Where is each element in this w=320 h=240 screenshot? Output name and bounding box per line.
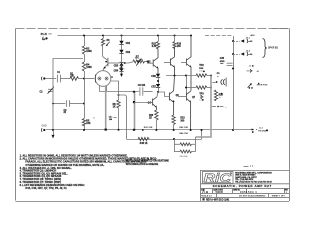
- svg-text:P4 GND: P4 GND: [258, 130, 267, 133]
- svg-text:TP2: TP2: [199, 64, 204, 67]
- svg-text:R23: R23: [180, 118, 185, 120]
- svg-text:R40 1K: R40 1K: [140, 142, 148, 145]
- svg-text:C30: C30: [220, 58, 225, 60]
- svg-text:CR2: CR2: [126, 52, 131, 54]
- svg-text:R41 15K: R41 15K: [144, 126, 153, 129]
- svg-text:R42 15K: R42 15K: [179, 126, 188, 129]
- svg-text:REV A 4/97 ECO 1141: REV A 4/97 ECO 1141: [206, 198, 230, 201]
- svg-text:1K: 1K: [113, 106, 116, 108]
- svg-text:1K: 1K: [149, 117, 152, 119]
- svg-text:CR3: CR3: [114, 65, 119, 67]
- svg-text:10K: 10K: [86, 123, 91, 125]
- svg-text:SPKR 8Ω: SPKR 8Ω: [268, 48, 278, 50]
- svg-text:J2-1: J2-1: [246, 37, 251, 39]
- svg-text:C6 104: C6 104: [138, 84, 146, 87]
- svg-text:J2-2: J2-2: [246, 50, 251, 52]
- svg-text:4.7K: 4.7K: [152, 45, 157, 48]
- svg-text:+40V: +40V: [250, 34, 256, 37]
- svg-text:P1 J1: P1 J1: [41, 34, 48, 36]
- svg-text:104: 104: [109, 119, 112, 121]
- svg-text:TP3: TP3: [199, 93, 204, 95]
- svg-text:22: 22: [93, 118, 95, 120]
- svg-text:100K: 100K: [86, 67, 92, 69]
- svg-text:1M: 1M: [70, 76, 73, 78]
- svg-text:CR1: CR1: [126, 43, 131, 45]
- svg-text:CR6: CR6: [151, 76, 156, 78]
- svg-text:CR4: CR4: [114, 69, 119, 72]
- svg-text:GND: GND: [42, 125, 47, 127]
- svg-text:SCHEMATIC, POWER AMP R27: SCHEMATIC, POWER AMP R27: [213, 184, 272, 188]
- svg-text:CR7: CR7: [151, 86, 156, 88]
- svg-text:x: x: [124, 69, 125, 71]
- svg-text:100K: 100K: [86, 51, 92, 53]
- svg-text:C40 104: C40 104: [180, 156, 189, 158]
- svg-text:R44, C40, CR7, Q7, TP2, P5, J2: R44, C40, CR7, Q7, TP2, P5, J2, F1: [25, 186, 67, 190]
- svg-text:R35: R35: [219, 94, 224, 96]
- svg-text:R44 15K: R44 15K: [179, 132, 188, 135]
- svg-text:SPKR RTN: SPKR RTN: [257, 84, 268, 86]
